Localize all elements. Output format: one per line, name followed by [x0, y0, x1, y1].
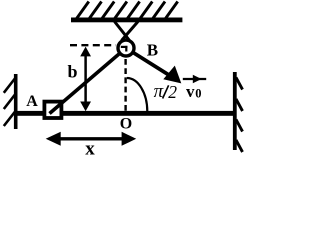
svg-text:2: 2 [168, 82, 177, 102]
svg-text:0: 0 [195, 87, 201, 101]
svg-text:A: A [26, 93, 38, 110]
svg-text:v: v [186, 82, 195, 101]
svg-text:O: O [120, 116, 132, 133]
svg-text:π: π [154, 81, 164, 102]
svg-text:B: B [147, 40, 158, 59]
svg-text:x: x [85, 139, 95, 158]
svg-text:b: b [68, 61, 78, 81]
